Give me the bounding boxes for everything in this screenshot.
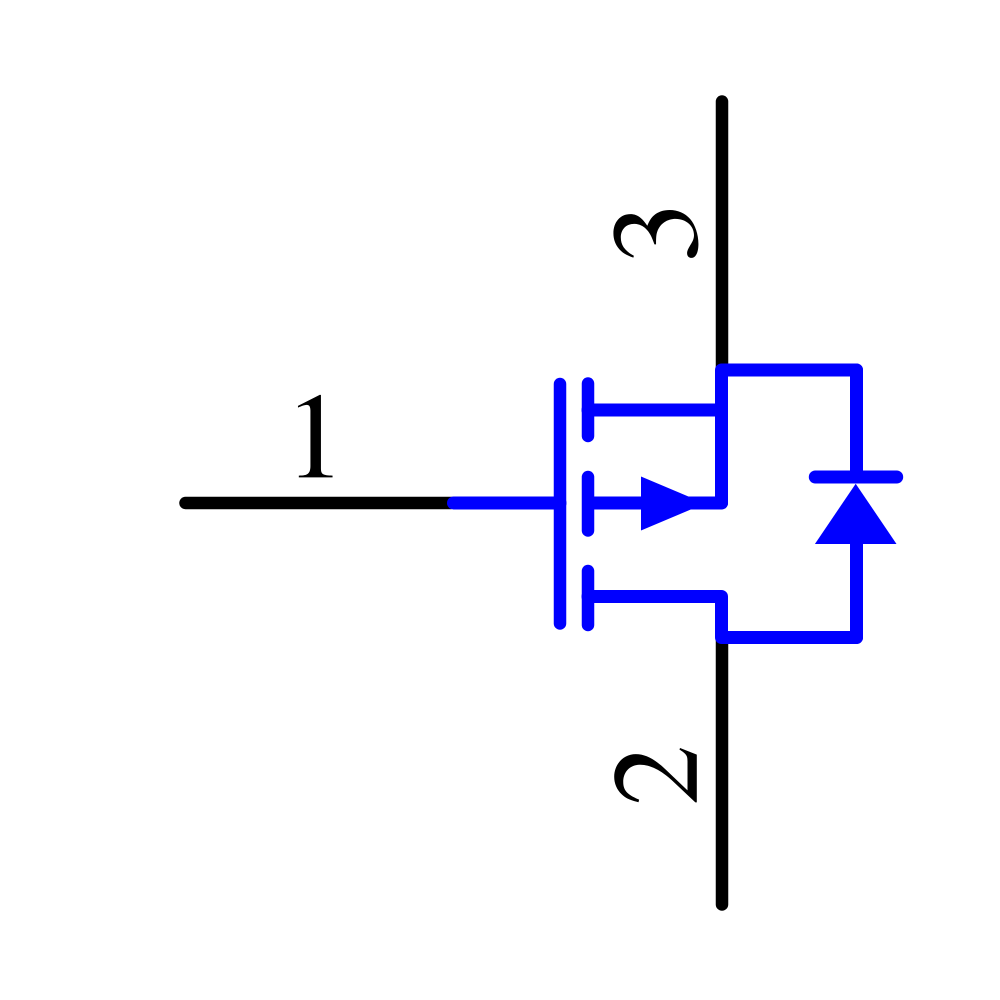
pin 3 number label "3" — [613, 210, 698, 258]
transistor Q1 (P-MOSFET with body diode) — [454, 370, 897, 638]
wire: right vertical bottom + bottom horizontal — [588, 597, 857, 638]
channel segment top — [582, 384, 595, 437]
wire: right vertical top — [722, 370, 857, 503]
pin 1 number label "1" — [298, 395, 333, 478]
channel segment middle — [582, 477, 595, 531]
diode anode triangle — [815, 484, 897, 544]
gate plate — [554, 384, 567, 624]
pin 1 (left, gate) — [186, 497, 452, 510]
pin 3 (top, source) — [716, 102, 729, 371]
wire: gate lead — [454, 497, 561, 510]
wire: body stub middle — [594, 497, 722, 510]
pin 2 (bottom, drain) — [716, 638, 729, 905]
diode cathode bar — [815, 471, 896, 484]
diode D (body diode) vertical top — [850, 370, 863, 477]
arrow of MOSFET body (points right) — [641, 477, 705, 531]
diode vertical bottom — [850, 544, 863, 638]
pin 2 number label "2" — [614, 748, 697, 802]
channel segment bottom — [582, 571, 595, 625]
wire: drain stub top — [588, 404, 722, 417]
